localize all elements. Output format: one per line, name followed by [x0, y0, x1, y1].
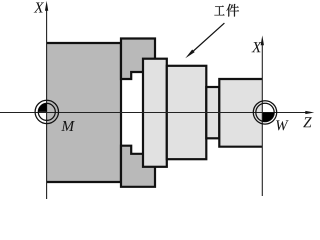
Z label	[303, 117, 311, 127]
workpiece neck section	[206, 87, 219, 138]
right X axis label	[251, 42, 261, 52]
right X axis line	[261, 42, 263, 196]
machine origin symbol M	[35, 100, 58, 123]
Z axis centerline	[0, 112, 307, 114]
left X axis label	[34, 2, 44, 12]
workpiece second section	[167, 66, 207, 159]
leader arrowhead	[185, 50, 194, 59]
workpiece flange section	[143, 59, 167, 167]
W label	[276, 120, 288, 130]
workpiece label char 工	[214, 6, 224, 16]
workpiece end section	[219, 79, 262, 147]
workpiece label char 件	[226, 4, 239, 17]
Z axis arrowhead	[305, 111, 314, 114]
leader line to workpiece	[190, 23, 225, 54]
left X axis line	[46, 9, 48, 199]
M label	[61, 121, 75, 131]
chuck top jaw	[121, 39, 155, 80]
chuck bottom jaw	[121, 146, 155, 187]
right X axis arrowhead	[261, 35, 264, 45]
workpiece origin symbol W	[253, 101, 276, 124]
chuck body	[47, 42, 123, 183]
left X axis arrowhead	[45, 1, 48, 11]
